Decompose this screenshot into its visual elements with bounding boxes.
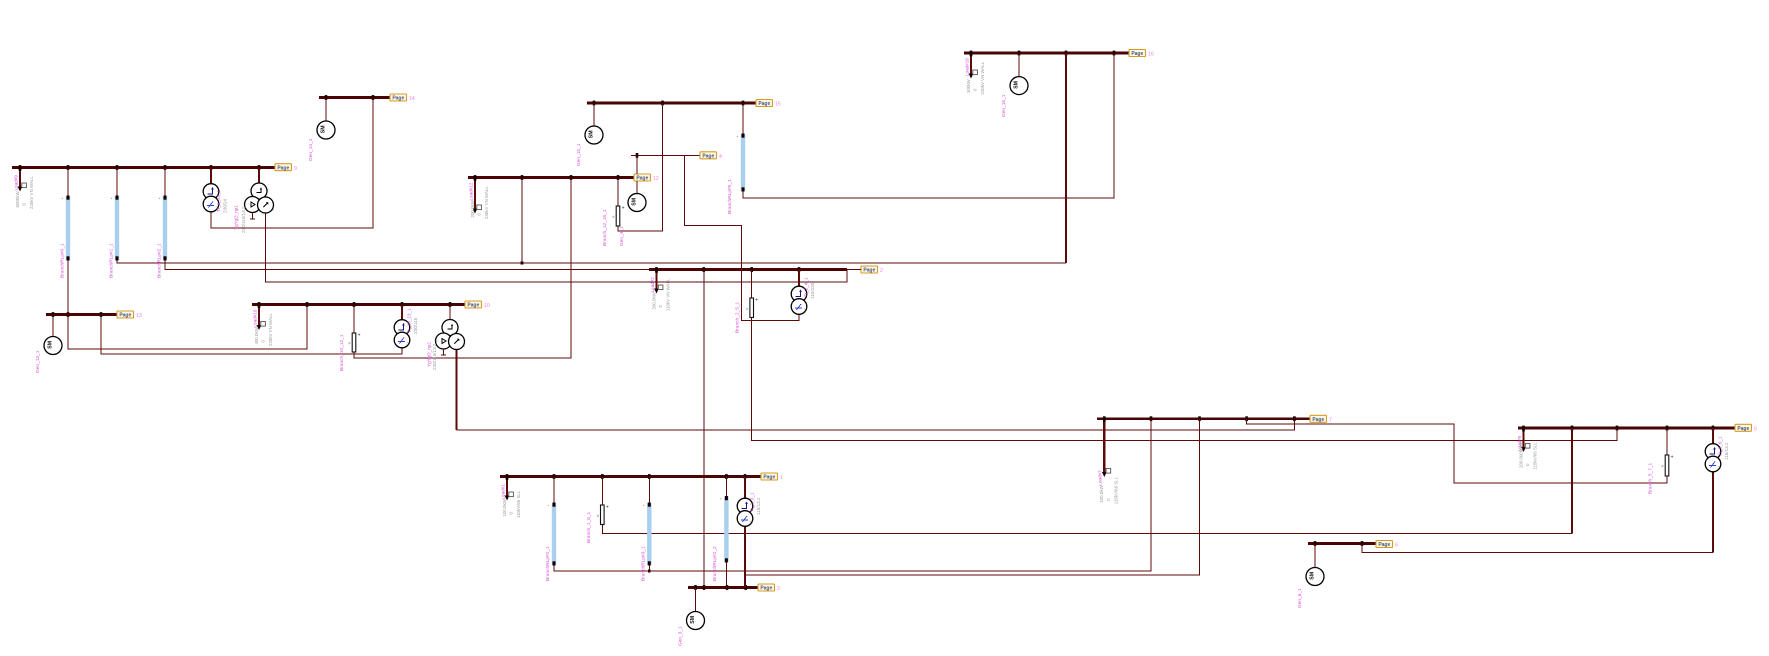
svg-text:SM: SM <box>588 130 594 138</box>
svg-text:+: + <box>622 206 625 212</box>
svg-text:200.0kW: 200.0kW <box>470 199 475 217</box>
generator Gen_4_1 <box>619 181 646 246</box>
svg-text:Page: Page <box>467 303 479 309</box>
svg-text:Page: Page <box>763 475 775 481</box>
svg-text:BranchRLp#3_1: BranchRLp#3_1 <box>641 546 647 581</box>
svg-text:Page: Page <box>1737 426 1749 432</box>
svg-text:16: 16 <box>1148 52 1154 58</box>
svg-text:9: 9 <box>294 166 297 172</box>
transformer Tr_1_3_1 <box>737 477 761 527</box>
svg-text:Gen_16_1: Gen_16_1 <box>1001 94 1007 117</box>
transmission line BranchRLp#1_1 <box>109 168 120 279</box>
svg-text:BranchRLp#5_1: BranchRLp#5_1 <box>727 179 733 214</box>
wire junction mark y571 <box>648 570 651 573</box>
transmission line BranchRLp#0_1 <box>60 168 71 279</box>
transmission line BranchRLp#2_1 <box>545 477 556 582</box>
transformer Tr_5_6_1 <box>1705 428 1729 472</box>
wire branch#1 to node (y263) <box>117 260 1066 263</box>
series branch Branch_10_12_1 <box>339 305 361 372</box>
transformer Tr_2_4_1 <box>791 270 815 315</box>
load Load#1 on bus 1 <box>500 475 521 518</box>
wire page 12 tag link <box>636 155 638 174</box>
svg-text:BranchRLp#0_1: BranchRLp#0_1 <box>60 243 66 278</box>
wire 3W np2 tertiary vertical <box>456 349 458 430</box>
svg-text:BranchRLp#2_1: BranchRLp#2_1 <box>545 546 551 581</box>
svg-text:SM: SM <box>1309 572 1315 580</box>
wire branch#5 to bus 16 <box>743 53 1114 198</box>
bus 3 <box>688 585 758 590</box>
svg-text:Page: Page <box>758 101 770 107</box>
svg-text:Load#12: Load#12 <box>468 182 473 200</box>
svg-text:*: * <box>111 197 113 202</box>
transmission line BranchRLp#2_2 <box>712 477 729 582</box>
svg-text:*: * <box>159 197 161 202</box>
svg-text:14: 14 <box>409 96 415 102</box>
transformer YgYgD_np1 <box>234 168 275 234</box>
page connector bus 16 <box>1129 50 1154 58</box>
wire branch 12-15 to bus 15 <box>618 103 663 231</box>
load Load#5 on bus 5 <box>1517 427 1538 470</box>
svg-text:SM: SM <box>631 198 637 206</box>
bus 10 <box>252 302 465 307</box>
svg-text:Tr_2_4_1: Tr_2_4_1 <box>804 277 809 297</box>
series branch Branch_1_6_1 <box>586 477 609 544</box>
wire y430 to bus 7 <box>457 419 1295 430</box>
svg-text:+: + <box>358 333 361 339</box>
wire bus 13 to transformer T2 <box>101 315 402 355</box>
svg-text:230/24: 230/24 <box>223 199 228 213</box>
wire branch 2-5 to bus 5 (y440) <box>752 318 1617 441</box>
svg-text:BranchRLp#1_1: BranchRLp#1_1 <box>109 243 115 278</box>
svg-text:Page: Page <box>760 586 772 592</box>
svg-text:Branch_10_12_1: Branch_10_12_1 <box>339 334 345 371</box>
svg-text:230/115/13.2: 230/115/13.2 <box>241 206 246 233</box>
svg-text:6: 6 <box>1395 543 1398 549</box>
wire 3W np1 tertiary to bus 2 end <box>266 213 848 282</box>
svg-text:5: 5 <box>1754 427 1757 433</box>
svg-text:Branch_2_5_1: Branch_2_5_1 <box>735 301 741 333</box>
svg-text:Branch_5_7_1: Branch_5_7_1 <box>1648 462 1654 494</box>
wire node y263 to bus 16 <box>1065 53 1067 263</box>
svg-text:Page: Page <box>392 96 404 102</box>
svg-text:200.0kW: 200.0kW <box>651 291 656 309</box>
svg-text:SM: SM <box>47 341 53 349</box>
generator Gen_3_1 <box>678 588 705 647</box>
bus 13 <box>46 312 117 317</box>
svg-text:*: * <box>548 504 550 509</box>
page connector bus 6 <box>1376 541 1398 549</box>
svg-text:+: + <box>755 298 758 304</box>
bus 5 <box>1518 426 1735 431</box>
svg-text:Page: Page <box>1312 417 1324 423</box>
load Load#2 on bus 2 <box>650 268 671 311</box>
transformer Tr_10_13_1 <box>394 305 418 348</box>
series branch Branch_2_5_1 <box>735 270 759 334</box>
svg-text:2: 2 <box>880 268 883 274</box>
bus 7 <box>1097 416 1310 421</box>
page connector bus 3 <box>758 584 780 592</box>
wire y533 to bus 5 <box>1571 428 1573 533</box>
svg-text:*: * <box>720 497 722 502</box>
svg-text:+: + <box>606 505 609 511</box>
generator Gen_13_1 <box>35 315 62 374</box>
svg-text:Gen_4_1: Gen_4_1 <box>619 226 625 246</box>
svg-text:4: 4 <box>719 154 722 160</box>
svg-text:Load#16: Load#16 <box>964 58 969 76</box>
svg-text:Tr_10_13_1: Tr_10_13_1 <box>407 308 412 333</box>
wire junction mark y263 <box>521 262 524 265</box>
svg-text:Page: Page <box>636 176 648 182</box>
page connector bus 1 <box>761 473 783 481</box>
svg-text:Gen_14_1: Gen_14_1 <box>308 138 314 161</box>
svg-text:7: 7 <box>1329 418 1332 424</box>
wire branch#3_1 bottom <box>648 565 650 571</box>
generator Gen_6_1 <box>1297 544 1324 609</box>
svg-text:100.0kW: 100.0kW <box>502 498 507 516</box>
bus 9 <box>12 165 275 170</box>
svg-text:220kV VN WALL: 220kV VN WALL <box>980 61 985 94</box>
bus 16 <box>964 51 1129 56</box>
svg-text:230/115: 230/115 <box>413 317 418 334</box>
svg-text:Tr_9_14_1: Tr_9_14_1 <box>216 190 221 212</box>
svg-text:Load#1: Load#1 <box>500 484 505 500</box>
wire transformer T4 to bus 3 <box>744 526 746 588</box>
wire bus 7 to branch 5-7 (y424/y483) <box>1247 419 1667 483</box>
page connector bus 5 <box>1735 424 1757 432</box>
svg-text:115/13.2: 115/13.2 <box>756 497 761 515</box>
page connector bus 13 <box>117 311 142 319</box>
svg-text:110kV VN WALL: 110kV VN WALL <box>666 278 671 311</box>
load Load#10 on bus 10 <box>252 303 273 346</box>
wire branch#0 to bus 10 (y349) <box>68 260 307 349</box>
svg-text:Page: Page <box>1131 51 1143 57</box>
page connector bus 2 <box>861 266 883 274</box>
wire bus 4 to transformer T3 bottom <box>685 155 800 320</box>
svg-text:6000kW: 6000kW <box>15 191 20 208</box>
wire branch 10-12 to bus 12 <box>354 178 571 359</box>
wire transformer T1 to bus 14 <box>211 98 373 229</box>
wire y575 to bus 7 <box>746 419 1200 575</box>
series branch Branch_12_15_1 <box>602 178 625 247</box>
bus 6 <box>1308 541 1376 546</box>
generator Gen_15_1 <box>576 103 603 166</box>
page connector bus 9 <box>275 164 297 172</box>
svg-text:Load#10: Load#10 <box>252 309 257 327</box>
svg-text:230/115/13.2: 230/115/13.2 <box>432 343 437 370</box>
svg-text:BranchRLp#2_2: BranchRLp#2_2 <box>712 546 718 581</box>
svg-text:10: 10 <box>484 303 490 309</box>
svg-text:Page: Page <box>702 153 714 159</box>
wire transformer T5 to bus 6 <box>1712 472 1714 553</box>
svg-text:Gen_13_1: Gen_13_1 <box>35 350 41 373</box>
svg-text:Branch_12_15_1: Branch_12_15_1 <box>602 209 608 246</box>
transformer Tr_9_14_1 <box>203 168 227 214</box>
svg-text:Tr_1_3_1: Tr_1_3_1 <box>750 492 755 512</box>
svg-text:15: 15 <box>775 102 781 108</box>
page connector bus 4 <box>700 152 722 160</box>
svg-text:*: * <box>62 197 64 202</box>
svg-text:200.00000kW: 200.00000kW <box>1518 440 1523 468</box>
svg-text:Gen_3_1: Gen_3_1 <box>678 626 684 646</box>
svg-text:115/13.2: 115/13.2 <box>1724 442 1729 460</box>
svg-text:*: * <box>643 504 645 509</box>
wire bus 2 to bus 3 <box>703 270 705 588</box>
generator Gen_14_1 <box>308 98 335 162</box>
svg-text:Tr_5_6_1: Tr_5_6_1 <box>1718 436 1723 456</box>
svg-text:115kV/66 SLL: 115kV/66 SLL <box>1533 442 1538 470</box>
svg-text:BranchRLp#2_1: BranchRLp#2_1 <box>157 243 163 278</box>
load Load#9 on bus 9 <box>13 166 34 209</box>
svg-text:100.0kW: 100.0kW <box>1099 485 1104 503</box>
svg-text:115kV/66 SLL: 115kV/66 SLL <box>1113 476 1118 504</box>
transformer YgYgD_np2 <box>427 305 466 371</box>
wire branch#2_2 to bus 3 <box>725 562 727 588</box>
svg-text:110/230: 110/230 <box>810 282 815 299</box>
bus 1 <box>500 474 761 479</box>
svg-text:Load#7: Load#7 <box>1098 470 1103 486</box>
svg-text:Page: Page <box>277 165 289 171</box>
svg-text:SM: SM <box>320 125 326 133</box>
wire bus 2 to page tag <box>847 269 861 271</box>
page connector bus 12 <box>634 174 659 182</box>
series branch Branch_5_7_1 <box>1648 428 1674 494</box>
svg-text:400.0kW: 400.0kW <box>254 326 259 344</box>
svg-text:Gen_6_1: Gen_6_1 <box>1297 588 1303 608</box>
svg-text:Load#2: Load#2 <box>650 277 655 293</box>
bus 2 <box>649 267 847 272</box>
bus 12 <box>468 175 634 180</box>
svg-text:YgYgD_np1: YgYgD_np1 <box>234 205 239 230</box>
svg-text:Gen_15_1: Gen_15_1 <box>576 143 582 166</box>
svg-text:300kW: 300kW <box>966 78 971 93</box>
svg-text:Load#9: Load#9 <box>13 175 18 191</box>
wire bus 12 to node y263 <box>521 178 523 264</box>
svg-text:13: 13 <box>136 313 142 319</box>
svg-text:Page: Page <box>119 313 131 319</box>
svg-text:220kV VN WALL: 220kV VN WALL <box>268 313 273 346</box>
load Load#7 on bus 7 <box>1098 417 1119 504</box>
page connector bus 14 <box>390 94 415 102</box>
load Load#16 on bus 16 <box>964 52 985 95</box>
page connector bus 7 <box>1310 415 1332 423</box>
wire branch 1-6 along y533 <box>602 525 1572 534</box>
bus 15 <box>587 101 756 106</box>
node bus 4 wire <box>631 153 700 158</box>
transmission line BranchRLp#2_1a <box>157 168 168 279</box>
svg-text:Branch_1_6_1: Branch_1_6_1 <box>586 511 592 543</box>
svg-text:230kV VN WALL: 230kV VN WALL <box>484 186 489 219</box>
svg-text:1: 1 <box>780 475 783 481</box>
bus 14 <box>319 95 390 100</box>
svg-text:+: + <box>1671 455 1674 461</box>
page connector bus 10 <box>465 301 490 309</box>
svg-text:SM: SM <box>1013 81 1019 89</box>
page connector bus 15 <box>756 100 781 108</box>
wire y552 to bus 6 <box>1362 544 1713 553</box>
transmission line BranchRLp#3_1 <box>641 477 652 582</box>
wire branch#2_1 to bus 7 (y571) <box>554 419 1151 571</box>
svg-text:YgYgD_np2: YgYgD_np2 <box>427 342 432 367</box>
svg-text:Page: Page <box>863 268 875 274</box>
svg-text:SM: SM <box>690 616 696 624</box>
wire branch#2 to bus 2 (y269) <box>165 260 649 270</box>
svg-text:3: 3 <box>777 586 780 592</box>
svg-text:*: * <box>737 135 739 140</box>
svg-text:110kV/66 SLL: 110kV/66 SLL <box>516 490 521 518</box>
transmission line BranchRLp#5_1 <box>727 103 745 214</box>
load Load#12 on bus 12 <box>468 176 489 219</box>
svg-text:Page: Page <box>1378 542 1390 548</box>
generator Gen_16_1 <box>1001 53 1028 117</box>
svg-text:220kV VN WALL: 220kV VN WALL <box>29 176 34 209</box>
svg-text:12: 12 <box>653 176 659 182</box>
